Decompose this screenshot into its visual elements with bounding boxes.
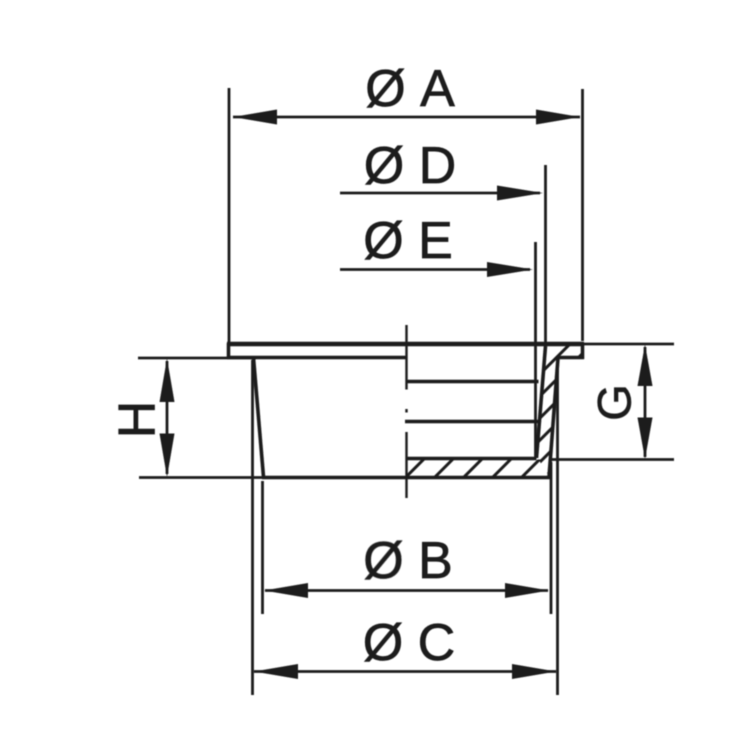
dim H arrowhead top [160, 359, 175, 403]
flange underside left [227, 356, 407, 360]
left outer wall [254, 358, 264, 477]
dim A arrowhead right [536, 110, 580, 125]
label H [119, 405, 155, 434]
dim C extension line left [251, 360, 254, 695]
flange left edge [227, 343, 231, 359]
dim E extension line [534, 242, 537, 458]
wall hatching [429, 340, 682, 485]
flange right edge [581, 343, 585, 359]
dim A extension line right [581, 89, 584, 341]
dim H dimension line [166, 361, 169, 474]
label dia D [366, 146, 454, 185]
dim G extension line bottom [552, 458, 674, 461]
dim C extension line right [556, 358, 559, 695]
bottom edge [262, 476, 552, 480]
dim B extension line left [261, 481, 264, 614]
label G [598, 388, 631, 419]
dim D arrowhead [497, 186, 543, 201]
dim B extension line right [550, 462, 553, 614]
dim G arrowhead top [638, 345, 653, 387]
inner bore step line 2 [405, 420, 539, 424]
dim A arrowhead left [233, 110, 277, 125]
dim A dimension line [233, 116, 580, 119]
centerline (dash-dot) [405, 325, 407, 498]
dim G dimension line [644, 347, 647, 457]
dim B dimension line [265, 589, 548, 592]
dim C arrowhead right [512, 664, 556, 679]
flange underside right [557, 356, 584, 360]
dim C arrowhead left [254, 664, 298, 679]
right outer wall [549, 358, 558, 477]
label dia B [365, 541, 450, 580]
label dia A [367, 69, 455, 108]
label dia E [365, 221, 451, 260]
dim B arrowhead left [264, 583, 308, 598]
dim H extension line bottom [139, 476, 262, 479]
right inner wall [537, 346, 546, 458]
dim A extension line left [228, 88, 231, 343]
inner bore step line 1 [407, 380, 539, 384]
dim E arrowhead [487, 262, 533, 277]
dim G arrowhead bottom [638, 418, 653, 460]
label dia C [365, 623, 454, 662]
dim H extension line top [138, 357, 256, 360]
dim C dimension line [254, 670, 556, 673]
dim D extension line [544, 165, 547, 346]
floor hatching [393, 450, 578, 490]
dim D dimension line [340, 192, 540, 195]
floor top line [407, 457, 537, 461]
dim E dimension line [340, 268, 530, 271]
flange top edge [227, 342, 584, 346]
dim H arrowhead bottom [160, 434, 175, 478]
dim B arrowhead right [505, 583, 549, 598]
dim G extension line top [584, 343, 674, 346]
